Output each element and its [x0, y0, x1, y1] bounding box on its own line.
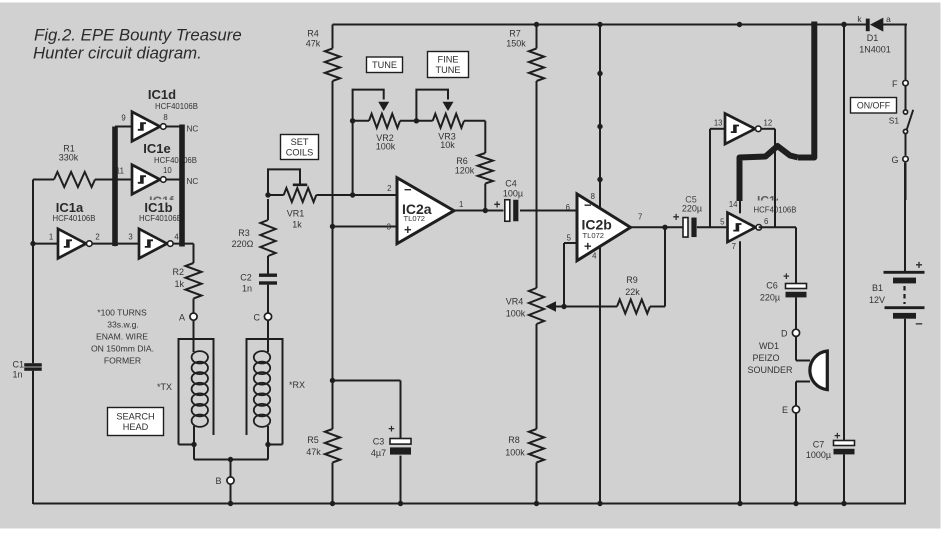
node junction R6-output: [483, 208, 488, 213]
svg-text:6: 6: [764, 217, 768, 226]
wire R7 to VR4: [536, 81, 538, 288]
node junction R5 0V: [330, 501, 335, 506]
svg-text:+: +: [494, 200, 501, 212]
svg-text:+: +: [834, 431, 840, 443]
label pin 14: [729, 200, 738, 209]
svg-text:5: 5: [720, 218, 725, 227]
svg-text:C2: C2: [240, 273, 252, 283]
op-amp IC2b: [577, 194, 631, 261]
label remnant IC1f (partial): [149, 194, 174, 209]
label pin 10: [163, 166, 172, 175]
wire IC2a pin3 input: [333, 226, 398, 228]
box label SEARCH HEAD: [108, 408, 164, 436]
svg-text:C6: C6: [766, 281, 778, 291]
wire R4 to pin3 node: [332, 81, 334, 227]
wire IC1f pin13 to input node: [710, 129, 725, 228]
note coil winding: [91, 308, 154, 366]
wire pin3 node down: [332, 227, 334, 381]
inverter IC1d: [132, 87, 198, 141]
wire supply to C7: [841, 22, 846, 441]
svg-text:8: 8: [163, 113, 167, 122]
wire D1 anode to switch: [883, 24, 906, 80]
label pin 1: [459, 200, 463, 209]
svg-text:TUNE: TUNE: [372, 60, 397, 70]
resistor R2: [172, 263, 201, 313]
svg-text:1N4001: 1N4001: [859, 45, 891, 55]
svg-text:4µ7: 4µ7: [371, 448, 386, 458]
wire IC1c output: [759, 227, 796, 283]
wire C4 to IC2b pin6: [520, 210, 577, 212]
wire RX bottom to common: [267, 445, 269, 460]
wire VR2 wiper to pin 2: [352, 121, 354, 195]
wire TX bottom to common: [193, 445, 195, 460]
svg-text:1k: 1k: [292, 220, 302, 230]
wire battery to 0V rail: [904, 163, 906, 504]
label TX: [157, 382, 172, 392]
capacitor C7: [806, 431, 855, 461]
label pin 1: [49, 233, 53, 242]
svg-text:SOUNDER: SOUNDER: [747, 365, 793, 375]
resistor R3: [232, 199, 276, 274]
svg-text:100k: 100k: [506, 309, 526, 319]
svg-text:COILS: COILS: [286, 147, 314, 157]
svg-text:ENAM. WIRE: ENAM. WIRE: [96, 332, 148, 342]
svg-text:D: D: [781, 329, 788, 339]
svg-text:150k: 150k: [506, 39, 526, 49]
svg-text:*RX: *RX: [289, 380, 305, 390]
node C: [254, 312, 272, 322]
wire IC1e output stub: [166, 179, 182, 181]
svg-text:+: +: [388, 424, 394, 436]
svg-text:C1: C1: [13, 360, 25, 370]
svg-text:IC1a: IC1a: [56, 200, 84, 215]
thick pen wire inputs 9-11 to node: [112, 127, 118, 247]
svg-text:1n: 1n: [13, 370, 23, 380]
potentiometer VR3: [414, 90, 486, 150]
svg-text:D1: D1: [867, 33, 879, 43]
label pin 7: [638, 212, 642, 221]
svg-text:7: 7: [732, 242, 736, 251]
node junction pins 2-3: [112, 241, 117, 246]
svg-text:IC1b: IC1b: [144, 200, 172, 215]
title caption: [33, 26, 242, 63]
label pin 2: [387, 184, 391, 193]
svg-text:R7: R7: [509, 29, 521, 39]
svg-text:HCF40106B: HCF40106B: [139, 214, 182, 223]
wire switch to battery: [905, 163, 907, 200]
svg-text:NC: NC: [187, 125, 199, 134]
svg-text:IC1e: IC1e: [143, 141, 170, 156]
svg-text:2: 2: [95, 233, 99, 242]
svg-text:1: 1: [459, 200, 463, 209]
node junction C3 branch: [330, 378, 335, 383]
wire C3 branch: [333, 381, 401, 439]
label NC pin 8: [187, 125, 199, 134]
diode D1: [857, 14, 891, 55]
svg-text:C7: C7: [813, 440, 825, 450]
svg-text:1k: 1k: [174, 279, 184, 289]
node D: [781, 329, 800, 339]
label pin 5: [720, 218, 725, 227]
node junction VR2-pin2: [350, 192, 355, 197]
inverter IC1a: [53, 200, 96, 258]
coil TX screen bracket: [179, 339, 214, 445]
svg-text:4: 4: [592, 252, 597, 261]
svg-text:HCF40106B: HCF40106B: [154, 156, 197, 165]
svg-text:120k: 120k: [455, 166, 475, 176]
resistor R1: [33, 144, 115, 188]
svg-text:47k: 47k: [306, 39, 321, 49]
wire IC2b pin4 to 0V: [597, 246, 602, 506]
wire node E to 0V: [793, 413, 798, 506]
svg-text:E: E: [782, 405, 788, 415]
svg-text:47k: 47k: [306, 447, 321, 457]
label pin 3: [387, 223, 391, 232]
switch S1: [889, 86, 913, 156]
svg-text:1: 1: [49, 233, 53, 242]
svg-text:SEARCH: SEARCH: [116, 412, 154, 422]
svg-text:NC: NC: [187, 177, 199, 186]
label pin 12: [764, 119, 773, 128]
wire VR4 wiper to pin5: [561, 243, 577, 309]
wire IC1d input: [115, 126, 132, 128]
capacitor C1: [13, 360, 42, 380]
svg-text:TL072: TL072: [583, 231, 605, 240]
node junction TX bottom: [179, 442, 197, 447]
svg-text:+: +: [584, 239, 592, 254]
inverter IC1e: [132, 141, 197, 194]
node junction IC2a pin3: [330, 224, 335, 229]
label RX: [289, 380, 305, 390]
label pin 8: [591, 192, 595, 201]
wire coil common: [194, 457, 268, 477]
resistor R7: [506, 22, 544, 81]
capacitor C4: [494, 179, 523, 222]
wire C6 to node D: [795, 297, 797, 329]
label NC pin 10: [187, 177, 199, 186]
wire IC1a output to IC1b input: [92, 243, 139, 245]
svg-text:220Ω: 220Ω: [232, 239, 254, 249]
wire IC2a pin2 input: [316, 194, 397, 196]
wire top positive supply rail: [333, 24, 908, 26]
svg-text:–: –: [915, 316, 922, 331]
label pin 11: [116, 167, 124, 176]
inverter IC1f: [725, 114, 761, 145]
svg-text:12: 12: [764, 119, 773, 128]
svg-text:R8: R8: [508, 435, 520, 445]
svg-text:6: 6: [566, 203, 570, 212]
node A: [179, 312, 197, 322]
capacitor C5: [673, 195, 702, 238]
svg-text:1000µ: 1000µ: [806, 450, 831, 460]
svg-text:a: a: [886, 14, 891, 24]
svg-text:R9: R9: [626, 275, 638, 285]
svg-text:14: 14: [729, 200, 738, 209]
svg-text:FORMER: FORMER: [104, 356, 141, 366]
svg-text:C: C: [254, 312, 261, 322]
wire IC1b output to R2: [173, 244, 193, 263]
node F: [892, 79, 908, 89]
label pin 13: [714, 119, 723, 128]
svg-text:100k: 100k: [376, 142, 396, 152]
svg-text:TL072: TL072: [404, 214, 426, 223]
svg-text:+: +: [783, 271, 789, 283]
svg-text:2: 2: [387, 184, 391, 193]
svg-text:*TX: *TX: [157, 382, 172, 392]
svg-text:−: −: [404, 182, 412, 197]
svg-text:R3: R3: [238, 228, 250, 238]
wire IC1e input: [115, 179, 132, 181]
svg-text:10: 10: [163, 166, 172, 175]
svg-text:+: +: [915, 258, 922, 272]
svg-text:10k: 10k: [440, 140, 455, 150]
sounder WD1: [747, 341, 827, 390]
resistor R6: [455, 121, 493, 211]
svg-text:12V: 12V: [869, 295, 885, 305]
svg-text:PEIZO: PEIZO: [752, 353, 779, 363]
svg-text:R2: R2: [172, 267, 184, 277]
wire to R5: [332, 381, 334, 430]
capacitor C6: [760, 271, 807, 303]
resistor R5: [306, 429, 340, 504]
svg-text:1n: 1n: [242, 284, 252, 294]
label pin 6: [566, 203, 570, 212]
label pin 4: [174, 233, 179, 242]
wire node A to TX coil: [193, 320, 195, 352]
wire R1 to IC1 inputs node: [114, 180, 116, 244]
svg-text:VR1: VR1: [287, 209, 305, 219]
svg-text:S1: S1: [889, 116, 900, 126]
wire node D to sounder: [796, 336, 810, 360]
svg-text:A: A: [179, 312, 185, 322]
svg-text:8: 8: [591, 192, 595, 201]
wire IC2a output: [454, 210, 504, 212]
svg-text:33s.w.g.: 33s.w.g.: [107, 320, 139, 330]
node junction rail-C7 branch: [841, 22, 846, 27]
wire C7 to 0V: [841, 454, 846, 506]
svg-text:ON 150mm DIA.: ON 150mm DIA.: [91, 344, 154, 354]
svg-text:WD1: WD1: [759, 341, 779, 351]
resistor R4: [306, 25, 340, 82]
wire IC1c pin14 stub: [739, 199, 741, 213]
svg-text:*100 TURNS: *100 TURNS: [97, 308, 147, 318]
wire sounder to node E: [796, 382, 810, 407]
svg-text:22k: 22k: [625, 287, 640, 297]
potentiometer VR4: [506, 288, 564, 324]
node G: [891, 155, 908, 165]
svg-text:13: 13: [714, 119, 723, 128]
svg-text:B1: B1: [872, 283, 883, 293]
wire node C to RX coil: [267, 320, 269, 352]
label remnant IC1c (partial): [757, 194, 783, 208]
svg-text:R4: R4: [307, 29, 319, 39]
wire IC2b pin8 supply: [597, 22, 602, 208]
wire left rail (R1/IC1a input/C1 branch): [32, 180, 34, 505]
capacitor C3: [371, 424, 411, 459]
label pin 9: [121, 114, 125, 123]
label pin 3: [128, 233, 132, 242]
node junction IC1a pin1: [30, 241, 35, 246]
resistor R9: [564, 275, 665, 314]
svg-text:7: 7: [638, 212, 642, 221]
wire IC1a input: [33, 243, 58, 245]
svg-text:HCF40106B: HCF40106B: [53, 214, 96, 223]
resistor R8: [505, 429, 544, 504]
svg-text:Fig.2. EPE Bounty Treasure: Fig.2. EPE Bounty Treasure: [34, 26, 242, 45]
label pin 2: [95, 233, 99, 242]
node junction RX bottom: [265, 442, 282, 447]
svg-text:SET: SET: [291, 137, 309, 147]
svg-text:ON/OFF: ON/OFF: [857, 100, 891, 110]
wire IC1c pin7 to 0V: [737, 22, 743, 506]
svg-text:3: 3: [387, 223, 391, 232]
battery B1: [869, 258, 925, 331]
svg-text:FINE: FINE: [438, 55, 459, 65]
svg-text:3: 3: [128, 233, 132, 242]
svg-text:+: +: [404, 222, 412, 237]
svg-text:TUNE: TUNE: [435, 65, 460, 75]
svg-text:220µ: 220µ: [760, 293, 780, 303]
svg-text:IC1d: IC1d: [148, 87, 176, 102]
node junction R8 0V: [534, 501, 539, 506]
inverter IC1c: [728, 205, 797, 242]
svg-text:100µ: 100µ: [503, 189, 523, 199]
wire C5 to IC1c pin5: [697, 226, 728, 228]
svg-text:C4: C4: [505, 179, 517, 189]
op-amp IC2a: [397, 178, 454, 244]
svg-text:C3: C3: [373, 437, 385, 447]
wire C3 to 0V: [398, 456, 403, 507]
svg-text:9: 9: [121, 114, 125, 123]
inverter IC1b: [139, 200, 182, 258]
wire bottom 0V rail: [33, 503, 906, 505]
svg-text:330k: 330k: [59, 153, 79, 163]
svg-text:G: G: [891, 155, 898, 165]
preset VR1: [265, 169, 316, 229]
svg-text:R5: R5: [307, 435, 319, 445]
wire VR4 to R8: [536, 324, 538, 429]
coil TX: [192, 351, 208, 444]
label pin 6: [764, 217, 768, 226]
svg-text:220µ: 220µ: [682, 204, 702, 214]
svg-text:F: F: [892, 79, 898, 89]
box label ONOFF: [851, 98, 897, 114]
box label TUNE: [367, 57, 403, 73]
box label FINE TUNE: [428, 52, 469, 78]
wire IC2b output: [631, 226, 684, 228]
label pin 4: [592, 252, 597, 261]
svg-text:100k: 100k: [505, 448, 525, 458]
svg-text:5: 5: [567, 233, 572, 242]
wire IC1f pin12 to output node: [761, 129, 775, 228]
node junction R9 branch: [662, 225, 667, 230]
wire R9 branch: [664, 227, 666, 306]
node E: [782, 405, 800, 415]
capacitor C2: [240, 273, 277, 294]
thick pen wire pin14 to supply: [740, 22, 815, 202]
svg-text:R6: R6: [456, 156, 468, 166]
svg-text:B: B: [215, 476, 221, 486]
svg-text:+: +: [673, 212, 680, 224]
wire C2 to node C: [267, 285, 269, 313]
svg-text:HCF40106B: HCF40106B: [155, 102, 198, 111]
box label SET COILS: [281, 135, 319, 160]
wire node B to 0V rail: [228, 484, 233, 506]
label pin 8: [163, 113, 167, 122]
label pin 5: [567, 233, 572, 242]
coil RX screen bracket: [247, 339, 283, 445]
svg-text:HEAD: HEAD: [123, 422, 149, 432]
wire IC1d output stub: [166, 126, 182, 128]
svg-text:Hunter circuit diagram.: Hunter circuit diagram.: [33, 44, 202, 63]
node B: [215, 476, 234, 486]
thick pen wire outputs 8-10-4: [179, 125, 185, 247]
potentiometer VR2: [350, 90, 417, 152]
svg-text:4: 4: [174, 233, 179, 242]
svg-text:VR4: VR4: [506, 297, 524, 307]
coil RX: [254, 351, 270, 444]
label pin 7 (IC1): [732, 242, 736, 251]
